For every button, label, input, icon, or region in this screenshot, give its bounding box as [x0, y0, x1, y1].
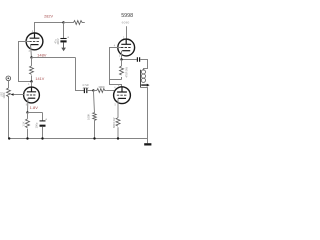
svg-text:2: 2 — [26, 38, 28, 41]
svg-text:5998: 5998 — [121, 13, 133, 19]
resistor R7 V2a cathode resistor — [117, 98, 119, 138]
triode V1b grid (dashed) — [29, 40, 39, 42]
wire: R4 bottom / grid junction to V2a plate — [110, 80, 122, 88]
svg-text:100u: 100u — [34, 122, 38, 128]
triode V1a cathode — [28, 97, 35, 99]
triode V2b cathode — [122, 50, 130, 52]
ground terminal at jack — [147, 139, 149, 144]
svg-text:470R 5W: 470R 5W — [126, 66, 129, 77]
svg-text:3: 3 — [29, 50, 31, 53]
wire: V1a cathode down — [27, 98, 29, 112]
svg-text:4: 4 — [114, 44, 116, 47]
wire: V2b grid line — [110, 48, 122, 80]
wire: rail from junction to resistor R1 — [64, 22, 74, 24]
triode V2b plate — [121, 39, 131, 44]
wire: output cap to jack branch — [140, 60, 147, 71]
svg-text:100K: 100K — [86, 114, 90, 120]
svg-text:680R 2W: 680R 2W — [113, 117, 116, 128]
resistor R4 White CF resistor — [121, 60, 123, 80]
wire: top B+ rail from V1b plate to junction — [35, 23, 64, 34]
svg-text:+: + — [45, 117, 47, 121]
triode V1a plate — [27, 88, 36, 92]
wire: V2b plate lead from label — [126, 26, 128, 39]
node: grid node dot — [92, 89, 94, 91]
wire: pot bottom to ground bus — [8, 99, 10, 139]
triode V1a (lower-left tube) envelope — [24, 87, 40, 103]
wire: V1b cathode to 148V rail — [31, 45, 32, 58]
capacitor C2 coupling cap plates — [84, 88, 86, 93]
svg-text:282V: 282V — [44, 14, 53, 18]
headphone jack / rheostat element bar — [140, 70, 142, 88]
svg-text:400V: 400V — [56, 38, 60, 44]
potentiometer VR1 100K element — [7, 88, 11, 100]
capacitor C1 bottom (polarized) plate — [60, 40, 66, 42]
svg-text:148V: 148V — [37, 52, 47, 57]
resistor R2 SRPP cathode/plate resistor — [31, 58, 33, 82]
svg-text:390K: 390K — [98, 85, 105, 89]
svg-text:1.8V: 1.8V — [30, 105, 39, 110]
resistor R5 100K grid leak — [93, 91, 94, 139]
node: bus junction dots — [8, 137, 10, 139]
triode V2b (upper-right tube) envelope — [118, 39, 135, 56]
wire: jack to volume pot — [8, 81, 10, 88]
svg-text:3: 3 — [119, 55, 121, 58]
triode V2a cathode — [118, 97, 126, 99]
ground bus — [9, 138, 148, 140]
resistor R6 390K grid resistor — [93, 90, 96, 92]
wiper arrow on jack — [141, 84, 149, 87]
node: junction dot on top rail — [62, 21, 64, 23]
potentiometer VR1 wiper arrow — [11, 93, 14, 95]
wire: V2b cathode to output node — [122, 51, 137, 60]
svg-text:141V: 141V — [35, 77, 44, 81]
resistor R1 (top right zigzag) — [74, 21, 85, 25]
triode V1b plate — [30, 33, 40, 38]
capacitor C3 output cap plates — [137, 57, 139, 62]
input jack J1 — [6, 76, 11, 81]
svg-text:+: + — [67, 36, 69, 40]
svg-text:100K: 100K — [2, 92, 6, 98]
node: V1a plate junction dot — [30, 80, 32, 82]
node: cathode junction dot — [26, 111, 28, 113]
wire: cathode junction to bypass cap branch — [28, 112, 43, 114]
wire: V1b grid line (to V1a plate) — [19, 42, 32, 82]
node: cathode junction dot — [30, 56, 32, 58]
capacitor C4 cathode bypass — [42, 113, 44, 121]
wire: 148V rail to the right — [32, 57, 76, 59]
headphone coil loops — [141, 70, 145, 74]
capacitor C1 47u 400V lead from rail — [63, 23, 65, 39]
ground (arrow) below C1 — [63, 42, 65, 48]
svg-text:1: 1 — [28, 83, 30, 86]
wire: wiper to V1a grid — [14, 94, 24, 96]
triode V1b cathode — [31, 44, 39, 46]
svg-text:1.5K: 1.5K — [23, 121, 26, 126]
svg-text:6080: 6080 — [122, 21, 130, 25]
triode V2a (lower-right tube) envelope — [114, 87, 131, 104]
wire: 148V rail corner down to coupling cap — [76, 58, 85, 91]
triode V2a plate — [117, 87, 127, 92]
node: cathode output dot — [120, 58, 122, 60]
triode V2a grid (dashed) — [117, 94, 127, 96]
triode V1a grid (dashed) — [27, 94, 36, 96]
wire: jack bottom to ground bus — [141, 88, 148, 139]
capacitor C1 top plate — [60, 38, 66, 40]
resistor R3 cathode resistor — [27, 113, 29, 139]
svg-text:400V: 400V — [83, 86, 89, 90]
triode V2b grid (dashed) — [121, 47, 131, 49]
svg-text:5: 5 — [115, 103, 117, 106]
wire: plate lead into V1a — [31, 82, 33, 89]
triode V1b (upper-left tube) envelope — [26, 33, 43, 50]
wire: cap to grid node — [87, 90, 94, 92]
